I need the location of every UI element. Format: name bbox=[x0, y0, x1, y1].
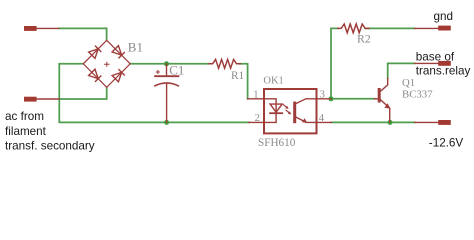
svg-text:BC337: BC337 bbox=[402, 88, 433, 100]
svg-text:base of: base of bbox=[416, 50, 455, 63]
svg-text:R1: R1 bbox=[231, 70, 244, 82]
svg-text:gnd: gnd bbox=[434, 10, 454, 23]
svg-text:SFH610: SFH610 bbox=[258, 137, 296, 149]
svg-text:B1: B1 bbox=[128, 40, 143, 55]
svg-text:3: 3 bbox=[320, 89, 325, 100]
svg-text:-12.6V: -12.6V bbox=[429, 137, 464, 150]
svg-text:transf. secondary: transf. secondary bbox=[5, 139, 95, 152]
svg-text:Q1: Q1 bbox=[402, 77, 415, 89]
svg-text:1: 1 bbox=[253, 89, 258, 100]
svg-text:R2: R2 bbox=[357, 32, 371, 46]
svg-text:2: 2 bbox=[255, 113, 260, 124]
svg-text:4: 4 bbox=[319, 113, 325, 124]
svg-text:filament: filament bbox=[5, 125, 47, 138]
svg-text:trans.relay: trans.relay bbox=[416, 65, 471, 78]
svg-text:ac from: ac from bbox=[5, 110, 44, 123]
svg-text:OK1: OK1 bbox=[263, 75, 283, 86]
svg-text:C1: C1 bbox=[169, 63, 184, 78]
